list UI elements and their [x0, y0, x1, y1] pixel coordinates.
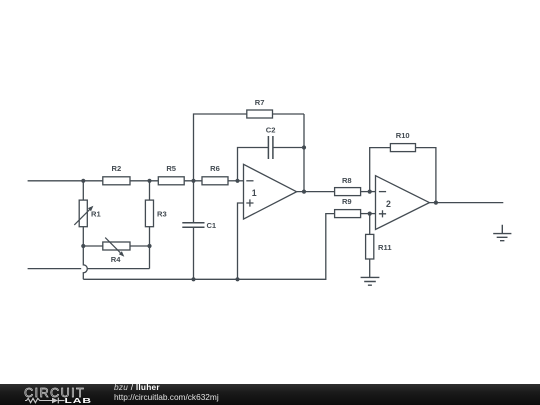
ground below R11 [361, 277, 380, 285]
capacitor C1 [182, 223, 204, 228]
resistor R5 [158, 177, 184, 185]
node U1 output junction [302, 190, 306, 194]
svg-text:R6: R6 [210, 164, 220, 173]
node main/R1 junction [81, 179, 85, 183]
node U2 minus junction [368, 190, 372, 194]
op-amp U1 [244, 164, 297, 219]
wire R3 column [149, 181, 151, 269]
wire R1 bottom lead [82, 227, 84, 246]
wire top-left input [28, 180, 103, 182]
svg-text:C2: C2 [266, 125, 276, 134]
wire bottom rail to R9 [83, 214, 334, 280]
wire R6 to op-amp U1 minus [228, 180, 244, 182]
node U2 output junction [434, 201, 438, 205]
resistor R9 [335, 210, 361, 218]
node U2 plus junction [368, 212, 372, 216]
footer text [114, 382, 219, 402]
wire C1 top lead [193, 181, 195, 223]
footer bar [0, 384, 540, 405]
resistor R8 [335, 188, 361, 196]
wire R4 left lead [83, 245, 103, 247]
wire C1 bottom lead [193, 227, 195, 279]
wire R7 left riser [194, 114, 247, 181]
svg-text:1: 1 [252, 188, 257, 198]
resistor R1 [79, 200, 87, 227]
wire U2 output [429, 202, 503, 204]
svg-text:2: 2 [386, 199, 391, 209]
svg-text:R8: R8 [342, 176, 352, 185]
wire R10 right riser to U2 output [416, 148, 436, 203]
svg-text:R2: R2 [112, 164, 122, 173]
node rail/U1-plus junction [235, 277, 239, 281]
node main/R3 junction [147, 179, 151, 183]
wire R7 right riser down to U1 output [273, 114, 305, 192]
resistor R10 [390, 144, 415, 152]
svg-text:R1: R1 [91, 210, 101, 219]
svg-text:R5: R5 [166, 164, 176, 173]
wire U1 plus input down to rail [238, 203, 244, 279]
wire bottom input to R3 column [87, 268, 149, 270]
svg-text:R3: R3 [157, 210, 167, 219]
CircuitLab logo [22, 384, 102, 405]
wire C2 left branch [238, 148, 269, 181]
node R1/R4 junction [81, 244, 85, 248]
node main/C1 junction [191, 179, 195, 183]
resistor R11 [366, 234, 374, 259]
capacitor C2 [268, 136, 273, 159]
resistor R2 [103, 177, 130, 185]
resistor R4 [103, 242, 130, 250]
variable-resistor arrow on R4 [105, 238, 124, 257]
svg-text:C1: C1 [206, 221, 216, 230]
node rail/C1 junction [191, 277, 195, 281]
wire bottom-left input [28, 268, 82, 270]
ground at output (floating) [493, 225, 511, 241]
wire R1 top lead [82, 181, 84, 200]
svg-text:R10: R10 [396, 131, 410, 140]
svg-text:R7: R7 [255, 98, 265, 107]
wire U1 output to R8 [297, 191, 335, 193]
wire C2 right branch [273, 147, 304, 149]
wire hop over bottom input [83, 246, 87, 279]
node R3/R4 junction [147, 244, 151, 248]
wire R9 to U2 plus [361, 213, 376, 215]
svg-text:R4: R4 [111, 255, 121, 264]
wire R11 bottom lead [369, 259, 371, 277]
svg-text:R11: R11 [378, 243, 392, 252]
wire node A to R5 [130, 180, 158, 182]
wire R11 top lead [369, 214, 371, 235]
wire R10 left riser [370, 148, 391, 192]
variable-resistor arrow on R1 [74, 206, 93, 225]
wire R8 to U2 minus [361, 191, 376, 193]
resistor R3 [145, 200, 153, 227]
svg-text:R9: R9 [342, 197, 352, 206]
wire R4 right lead [130, 245, 150, 247]
wire R5 to R6 [184, 180, 202, 182]
node main/C2-branch junction [235, 179, 239, 183]
node C2/R7 junction [302, 145, 306, 149]
resistor R7 [247, 110, 273, 118]
op-amp U2 [376, 176, 430, 230]
svg-text:LAB: LAB [65, 397, 93, 405]
resistor R6 [202, 177, 228, 185]
